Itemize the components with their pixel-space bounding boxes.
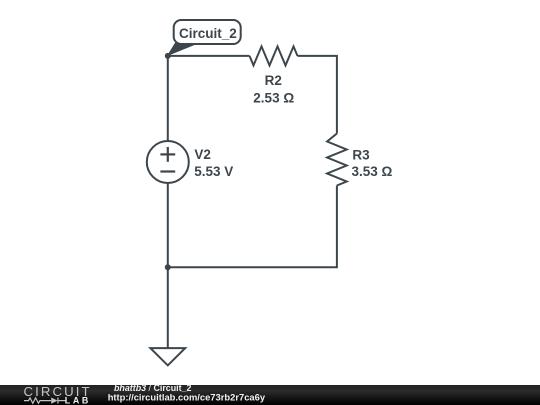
footer bar	[0, 385, 540, 405]
wire: R2 to top-right corner	[298, 56, 337, 134]
logo resistor-diode line	[24, 398, 67, 404]
wire: node A down to V2 top	[167, 56, 169, 141]
resistor R3	[327, 134, 347, 186]
svg-text:http://circuitlab.com/ce73rb2r: http://circuitlab.com/ce73rb2r7ca6y	[108, 392, 266, 403]
wire: V2 bottom to node B	[167, 183, 169, 267]
ground	[150, 348, 185, 365]
logo diode triangle	[51, 398, 57, 404]
wire top: node A to R2	[168, 55, 250, 57]
node A junction dot	[165, 53, 171, 59]
wire: node B to ground	[167, 267, 169, 348]
resistor R2	[250, 46, 298, 65]
svg-text:LAB: LAB	[65, 395, 91, 405]
voltage source V2	[147, 141, 189, 183]
label callout Circuit_2 tail	[167, 43, 200, 57]
label callout Circuit_2 box	[174, 20, 241, 44]
node B junction dot	[165, 264, 171, 270]
wire: R3 to bottom-right corner to node B	[168, 186, 337, 268]
